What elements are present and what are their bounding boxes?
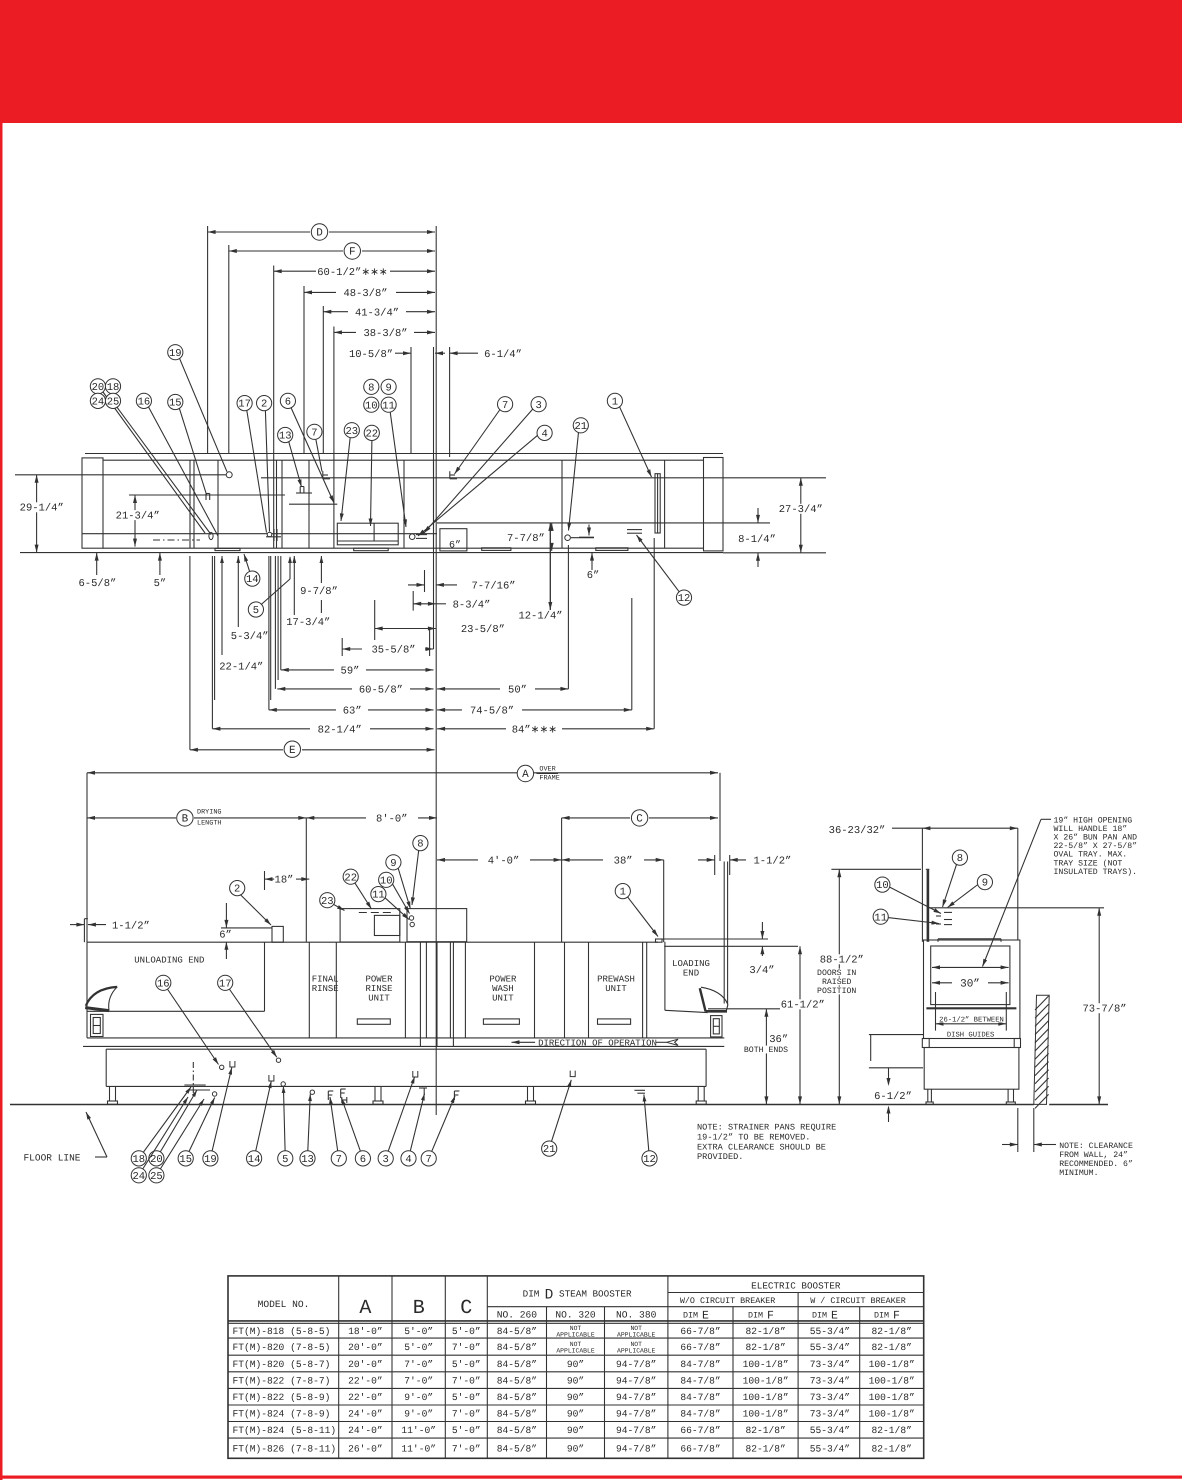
svg-text:5'-0”: 5'-0” [404, 1326, 433, 1337]
svg-text:DIM: DIM [683, 1311, 698, 1321]
dimension 10-5/8 [349, 349, 445, 361]
svg-text:5'-0”: 5'-0” [452, 1425, 481, 1436]
svg-text:60-5/8”: 60-5/8” [359, 685, 403, 697]
dimension 84 [437, 724, 654, 736]
red left border [0, 123, 3, 1480]
svg-text:18: 18 [132, 1154, 145, 1166]
elevation balloon 17 [218, 975, 277, 1057]
end view balloon 8 [943, 850, 968, 907]
svg-text:8: 8 [957, 853, 963, 865]
svg-text:25: 25 [107, 397, 120, 409]
svg-text:82-1/8”: 82-1/8” [745, 1425, 785, 1436]
svg-text:INSULATED TRAYS).: INSULATED TRAYS). [1054, 868, 1138, 877]
svg-text:OVER: OVER [539, 766, 555, 774]
svg-text:21-3/4”: 21-3/4” [116, 510, 160, 522]
svg-text:7'-0”: 7'-0” [452, 1409, 481, 1420]
svg-text:82-1/8”: 82-1/8” [745, 1342, 785, 1353]
svg-text:F: F [893, 1310, 900, 1323]
right control box [711, 1016, 722, 1037]
svg-text:84-5/8”: 84-5/8” [497, 1375, 537, 1386]
svg-text:DIM: DIM [748, 1311, 763, 1321]
bottom balloon 4 #12 [401, 1094, 425, 1167]
end view balloon 11 [873, 909, 939, 924]
svg-text:14: 14 [248, 1154, 261, 1166]
svg-text:E: E [702, 1310, 709, 1323]
svg-text:12-1/4”: 12-1/4” [518, 611, 562, 623]
hook mark 15 target [206, 494, 210, 501]
svg-text:D: D [316, 228, 323, 240]
svg-text:8-3/4”: 8-3/4” [453, 599, 491, 611]
svg-text:22-1/4”: 22-1/4” [219, 661, 263, 673]
svg-text:DOORS IN: DOORS IN [817, 969, 856, 978]
dimension 12-1/4 [518, 523, 564, 623]
bottom balloon 13 #8 [300, 1094, 315, 1166]
svg-text:UNIT: UNIT [492, 994, 514, 1004]
svg-text:6”: 6” [587, 570, 600, 582]
svg-text:F: F [349, 247, 356, 259]
svg-text:84-5/8”: 84-5/8” [497, 1342, 537, 1353]
svg-text:84-5/8”: 84-5/8” [497, 1425, 537, 1436]
svg-text:24: 24 [92, 397, 105, 409]
svg-text:100-1/8”: 100-1/8” [869, 1409, 915, 1420]
svg-text:63”: 63” [343, 706, 362, 718]
svg-text:15: 15 [179, 1154, 192, 1166]
red bottom border [0, 1476, 1182, 1479]
svg-text:94-7/8”: 94-7/8” [616, 1425, 656, 1436]
dimension 63 [269, 706, 434, 718]
svg-text:B: B [413, 1297, 425, 1320]
svg-text:20'-0”: 20'-0” [348, 1359, 383, 1370]
dimension 29-1/4 [19, 475, 65, 553]
svg-text:NO. 320: NO. 320 [555, 1310, 596, 1321]
dimension 6-5/8 [78, 553, 116, 590]
unloading bay [87, 942, 265, 1011]
svg-text:29-1/4”: 29-1/4” [20, 503, 64, 515]
balloon 11 [381, 397, 407, 527]
dimension 7-7/16 [408, 570, 516, 593]
svg-text:55-3/4”: 55-3/4” [810, 1342, 850, 1353]
svg-text:12: 12 [678, 593, 691, 605]
svg-text:7: 7 [426, 1154, 432, 1166]
svg-text:66-7/8”: 66-7/8” [680, 1425, 720, 1436]
svg-text:FROM WALL, 24”: FROM WALL, 24” [1059, 1151, 1128, 1160]
svg-text:36-23/32”: 36-23/32” [829, 825, 886, 837]
power wash unit label [489, 975, 517, 1004]
dimension 35-5/8 [342, 645, 433, 657]
svg-text:3/4”: 3/4” [749, 965, 774, 977]
svg-text:82-1/8”: 82-1/8” [745, 1444, 785, 1455]
svg-text:B: B [182, 814, 189, 826]
dimension 36 both ends [708, 1009, 789, 1105]
svg-text:19: 19 [204, 1154, 217, 1166]
svg-text:82-1/4”: 82-1/4” [318, 724, 362, 736]
bottom balloon 19 #5 [203, 1068, 232, 1167]
oval mark 16 target [209, 532, 213, 539]
svg-text:73-3/4”: 73-3/4” [810, 1409, 850, 1420]
svg-text:PREWASH: PREWASH [597, 975, 635, 985]
svg-text:18: 18 [107, 382, 120, 394]
balloon 21 plan [567, 418, 588, 531]
svg-text:73-3/4”: 73-3/4” [810, 1392, 850, 1403]
plan right horizontal reference lines [261, 478, 826, 553]
end view balloon 10 [875, 877, 941, 914]
svg-text:21: 21 [543, 1144, 556, 1156]
svg-text:20: 20 [150, 1154, 163, 1166]
dish guides dimension [936, 992, 1007, 1039]
svg-text:35-5/8”: 35-5/8” [371, 645, 415, 657]
floor line label [23, 1112, 107, 1163]
balloon 9 [381, 379, 396, 394]
svg-text:C: C [460, 1297, 472, 1320]
svg-text:NOTE: STRAINER PANS REQUIRE: NOTE: STRAINER PANS REQUIRE [697, 1123, 836, 1133]
svg-text:9'-0”: 9'-0” [404, 1392, 433, 1403]
svg-text:100-1/8”: 100-1/8” [743, 1392, 789, 1403]
dimension 27-3/4 [778, 478, 824, 553]
balloon 22 [364, 425, 379, 526]
dimension 5 [154, 553, 167, 590]
svg-text:FT(M)-824 (5-8-11): FT(M)-824 (5-8-11) [233, 1425, 337, 1436]
svg-text:90”: 90” [567, 1425, 584, 1436]
svg-text:6-5/8”: 6-5/8” [78, 578, 116, 590]
hood intermediate line [289, 503, 337, 505]
balloon 7 left [307, 424, 322, 471]
elevation hood left box [340, 909, 400, 942]
dimension 7-7/8 [506, 523, 553, 551]
dimension 60-1/2 [274, 267, 435, 279]
bottom balloon 24 #2 [131, 1097, 188, 1183]
svg-text:66-7/8”: 66-7/8” [680, 1342, 720, 1353]
dimension 38-3/8 [334, 328, 435, 340]
svg-text:NO. 380: NO. 380 [616, 1310, 657, 1321]
bottom balloon 7 #9 [329, 1097, 346, 1166]
svg-text:POWER: POWER [365, 975, 393, 985]
svg-text:UNIT: UNIT [605, 984, 627, 994]
wall clearance note [1002, 1108, 1133, 1178]
svg-text:7'-0”: 7'-0” [452, 1375, 481, 1386]
svg-text:W/O CIRCUIT BREAKER: W/O CIRCUIT BREAKER [680, 1296, 776, 1306]
plan view internal dividers [190, 266, 665, 549]
elevation upper extension lines [87, 773, 730, 942]
svg-text:100-1/8”: 100-1/8” [869, 1359, 915, 1370]
table headers [258, 1280, 906, 1322]
svg-text:73-3/4”: 73-3/4” [810, 1375, 850, 1386]
bottom balloon 5 #7 [278, 1086, 293, 1166]
svg-text:2: 2 [234, 884, 240, 896]
svg-text:7: 7 [311, 427, 317, 439]
svg-text:88-1/2”: 88-1/2” [820, 955, 864, 967]
svg-text:90”: 90” [567, 1392, 584, 1403]
direction of operation [512, 1039, 679, 1049]
dimension 48-3/8 [304, 288, 435, 300]
svg-text:22'-0”: 22'-0” [348, 1375, 383, 1386]
dimension E [190, 741, 435, 757]
svg-text:84-7/8”: 84-7/8” [680, 1409, 720, 1420]
pump enclosure box [337, 523, 398, 551]
svg-text:F: F [767, 1310, 774, 1323]
elevation balloon 9 [386, 855, 411, 909]
elevation hood right box [407, 909, 467, 942]
svg-text:10-5/8”: 10-5/8” [349, 349, 393, 361]
dimension 73-7/8 [929, 908, 1128, 1105]
svg-text:RAISED: RAISED [822, 978, 852, 987]
door channel [655, 474, 660, 533]
svg-text:4: 4 [405, 1154, 411, 1166]
svg-text:84-5/8”: 84-5/8” [497, 1444, 537, 1455]
left control box [91, 1014, 104, 1036]
extension lines below plan [190, 523, 654, 750]
svg-text:UNLOADING END: UNLOADING END [134, 956, 204, 966]
svg-text:55-3/4”: 55-3/4” [810, 1444, 850, 1455]
svg-text:11: 11 [382, 400, 395, 412]
svg-text:24: 24 [132, 1171, 145, 1183]
svg-text:100-1/8”: 100-1/8” [869, 1392, 915, 1403]
svg-text:66-7/8”: 66-7/8” [680, 1444, 720, 1455]
svg-text:5”: 5” [154, 578, 167, 590]
plan left horizontal reference lines [15, 475, 229, 553]
svg-text:6: 6 [360, 1154, 366, 1166]
elevation left lip [84, 919, 88, 943]
svg-text:FT(M)-820 (7-8-5): FT(M)-820 (7-8-5) [233, 1342, 331, 1353]
svg-text:15: 15 [169, 398, 182, 410]
bottom balloon 25 #3 [149, 1099, 204, 1183]
U fittings [230, 1061, 235, 1067]
svg-text:82-1/8”: 82-1/8” [872, 1326, 912, 1337]
elevation balloon 23 [320, 893, 345, 911]
svg-text:22: 22 [344, 872, 357, 884]
balloon 18 [105, 379, 120, 394]
balloon 13 [278, 427, 302, 487]
svg-text:18'-0”: 18'-0” [348, 1326, 383, 1337]
svg-text:E: E [289, 745, 296, 757]
svg-text:2: 2 [261, 399, 267, 411]
svg-text:59”: 59” [341, 666, 360, 678]
svg-text:W / CIRCUIT BREAKER: W / CIRCUIT BREAKER [810, 1296, 906, 1306]
bottom balloon 18 #0 [131, 1087, 191, 1166]
svg-text:DIM: DIM [874, 1311, 889, 1321]
88-1/2 extension line [831, 868, 921, 870]
svg-text:7-7/16”: 7-7/16” [471, 581, 515, 593]
specification table [228, 1276, 924, 1458]
balloon 17 [237, 396, 267, 533]
svg-text:WASH: WASH [492, 984, 514, 994]
elevation balloon 1 [615, 884, 658, 937]
svg-text:6: 6 [285, 397, 291, 409]
svg-text:5'-0”: 5'-0” [452, 1326, 481, 1337]
svg-text:20'-0”: 20'-0” [348, 1342, 383, 1353]
svg-text:48-3/8”: 48-3/8” [343, 288, 387, 300]
hinge detail right [565, 535, 594, 541]
balloon 4 [418, 425, 552, 536]
balloon 25 [105, 393, 211, 534]
power rinse unit label [365, 975, 393, 1004]
svg-text:FRAME: FRAME [539, 775, 559, 783]
svg-text:A: A [522, 769, 529, 781]
svg-text:84-5/8”: 84-5/8” [497, 1326, 537, 1337]
svg-text:FINAL: FINAL [312, 975, 339, 985]
left unload hood curve [85, 987, 117, 1011]
svg-text:6”: 6” [219, 929, 232, 941]
dimension 4ft [437, 856, 562, 868]
svg-text:8-1/4”: 8-1/4” [738, 534, 776, 546]
dimension 21-3/4 [115, 495, 285, 547]
svg-text:41-3/4”: 41-3/4” [355, 307, 399, 319]
svg-text:ELECTRIC BOOSTER: ELECTRIC BOOSTER [751, 1280, 841, 1291]
dimension 41-3/4 [323, 307, 435, 319]
svg-text:10: 10 [365, 400, 378, 412]
svg-text:26-1/2” BETWEEN: 26-1/2” BETWEEN [939, 1015, 1004, 1024]
svg-text:7'-0”: 7'-0” [404, 1375, 433, 1386]
svg-text:D: D [545, 1288, 554, 1304]
svg-text:DIM: DIM [523, 1289, 540, 1300]
svg-text:PROVIDED.: PROVIDED. [697, 1152, 743, 1162]
dimension 1-1/2 left [70, 920, 150, 932]
svg-text:82-1/8”: 82-1/8” [745, 1326, 785, 1337]
dimension 6 vent [219, 903, 272, 959]
wall section hatched [1034, 995, 1049, 1108]
svg-text:30”: 30” [960, 979, 980, 991]
door handle slots [357, 1019, 630, 1024]
loading bay [665, 942, 708, 1013]
dimension 38 [562, 856, 664, 868]
svg-text:POWER: POWER [489, 975, 517, 985]
dimension 36-23/32 [829, 825, 1018, 942]
balloon 3 [424, 397, 546, 533]
svg-text:7'-0”: 7'-0” [452, 1342, 481, 1353]
svg-text:RINSE: RINSE [312, 984, 339, 994]
svg-text:100-1/8”: 100-1/8” [743, 1359, 789, 1370]
svg-text:18”: 18” [275, 875, 294, 887]
svg-text:3: 3 [535, 400, 541, 412]
bracket fitting right [419, 1088, 427, 1095]
svg-text:25: 25 [150, 1171, 163, 1183]
elevation balloon 11 [371, 887, 409, 920]
tray slots [215, 548, 628, 551]
floor line [10, 1104, 1108, 1106]
svg-text:38”: 38” [614, 856, 633, 868]
svg-text:84-7/8”: 84-7/8” [680, 1359, 720, 1370]
bottom balloon 21 #14 [542, 1080, 572, 1156]
dimension 61-1/2 [780, 946, 826, 1104]
end view legs [926, 1089, 1015, 1104]
dimension 3/4 [749, 922, 774, 977]
svg-text:FT(M)-822 (7-8-7): FT(M)-822 (7-8-7) [233, 1375, 331, 1386]
svg-text:73-7/8”: 73-7/8” [1082, 1003, 1126, 1015]
svg-text:55-3/4”: 55-3/4” [810, 1425, 850, 1436]
svg-text:7'-0”: 7'-0” [404, 1359, 433, 1370]
dimension 1-1/2 right [698, 856, 791, 868]
dimension 59 [281, 666, 434, 678]
dimension 88-1/2 doors raised [816, 869, 864, 1104]
svg-text:19-1/2” TO BE REMOVED.: 19-1/2” TO BE REMOVED. [697, 1132, 810, 1142]
dimension C [562, 810, 718, 826]
svg-text:100-1/8”: 100-1/8” [869, 1375, 915, 1386]
svg-text:50”: 50” [508, 685, 527, 697]
svg-text:23-5/8”: 23-5/8” [461, 624, 505, 636]
svg-text:APPLICABLE: APPLICABLE [556, 1332, 595, 1339]
svg-text:C: C [636, 814, 643, 826]
svg-text:24'-0”: 24'-0” [348, 1425, 383, 1436]
svg-text:8'-0”: 8'-0” [376, 814, 408, 826]
svg-text:84-5/8”: 84-5/8” [497, 1409, 537, 1420]
svg-text:10: 10 [380, 875, 393, 887]
elevation balloon 22 [343, 869, 371, 909]
balloon 12 plan [637, 535, 692, 605]
svg-text:7-7/8”: 7-7/8” [507, 533, 545, 545]
svg-text:3: 3 [383, 1154, 389, 1166]
svg-text:19: 19 [169, 348, 182, 360]
balloon 6 [280, 393, 334, 503]
svg-text:7: 7 [502, 400, 508, 412]
red header band [0, 0, 1182, 123]
svg-text:8: 8 [368, 382, 374, 394]
H fitting [342, 1097, 347, 1103]
svg-text:EXTRA CLEARANCE SHOULD BE: EXTRA CLEARANCE SHOULD BE [697, 1142, 826, 1152]
svg-text:22'-0”: 22'-0” [348, 1392, 383, 1403]
bottom balloon 3 #11 [378, 1077, 415, 1167]
svg-text:24'-0”: 24'-0” [348, 1409, 383, 1420]
svg-text:4'-0”: 4'-0” [488, 856, 520, 868]
hook mark 13 target [296, 487, 312, 494]
svg-text:17-3/4”: 17-3/4” [286, 617, 330, 629]
svg-text:82-1/8”: 82-1/8” [872, 1425, 912, 1436]
final rinse label [312, 975, 339, 995]
svg-text:26'-0”: 26'-0” [348, 1444, 383, 1455]
svg-text:94-7/8”: 94-7/8” [616, 1409, 656, 1420]
svg-text:94-7/8”: 94-7/8” [616, 1444, 656, 1455]
detail fitting at 269 [266, 529, 281, 541]
elevation right lip [724, 862, 727, 1004]
svg-text:100-1/8”: 100-1/8” [743, 1409, 789, 1420]
svg-text:6-1/2”: 6-1/2” [874, 1091, 912, 1103]
dimension 50 [437, 685, 568, 697]
svg-text:11: 11 [372, 890, 385, 902]
end view top shelf [938, 939, 1001, 942]
svg-text:NOTE: CLEARANCE: NOTE: CLEARANCE [1059, 1142, 1133, 1151]
bottom balloon 6 #10 [342, 1098, 371, 1166]
svg-text:11'-0”: 11'-0” [401, 1425, 436, 1436]
left tabling line [869, 1035, 924, 1061]
dimension 8ft [306, 814, 437, 826]
svg-text:UNIT: UNIT [368, 994, 390, 1004]
end view hood [924, 940, 1020, 1039]
svg-text:POSITION: POSITION [817, 987, 856, 996]
svg-text:17: 17 [219, 978, 232, 990]
svg-text:LOADING: LOADING [672, 959, 710, 969]
svg-text:12: 12 [643, 1154, 656, 1166]
tray guide dashes [936, 912, 952, 924]
svg-text:11: 11 [874, 912, 887, 924]
svg-text:84”∗∗∗: 84”∗∗∗ [512, 724, 557, 736]
elevation balloon 8 [411, 836, 428, 906]
bottom balloon 15 #4 [178, 1098, 215, 1167]
svg-text:A: A [359, 1297, 371, 1320]
svg-text:66-7/8”: 66-7/8” [680, 1326, 720, 1337]
svg-text:RECOMMENDED. 6”: RECOMMENDED. 6” [1059, 1160, 1133, 1169]
dimension 6-1/4 [450, 349, 522, 361]
loading end label [672, 959, 710, 979]
bottom balloon 14 #6 [247, 1081, 272, 1166]
svg-text:DIM: DIM [812, 1311, 827, 1321]
svg-text:14: 14 [246, 574, 259, 586]
svg-text:MINIMUM.: MINIMUM. [1059, 1169, 1098, 1178]
svg-text:BOTH ENDS: BOTH ENDS [744, 1046, 788, 1055]
elevation balloon 2 [230, 881, 271, 926]
balloon 5 plan [248, 556, 292, 617]
extension lines above plan [208, 226, 450, 1115]
svg-text:FT(M)-822 (5-8-9): FT(M)-822 (5-8-9) [233, 1392, 331, 1403]
balloon 19 [168, 345, 233, 478]
svg-text:8: 8 [417, 839, 423, 851]
